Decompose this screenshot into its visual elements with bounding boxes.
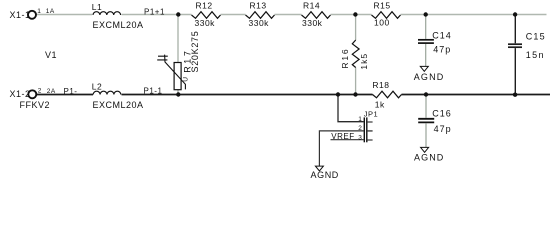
- svg-text:EXCML20A: EXCML20A: [93, 20, 144, 30]
- svg-text:47p: 47p: [433, 45, 451, 55]
- resistor R15: [372, 12, 401, 19]
- resistor R13: [246, 12, 275, 19]
- wire: varistor column vertical: [177, 15, 179, 95]
- capacitor C16: [418, 95, 434, 147]
- svg-text:2A: 2A: [47, 88, 56, 95]
- resistor R14: [302, 12, 331, 19]
- varistor R17 symbol mark: [157, 56, 168, 60]
- jumper JP1 body: [364, 117, 372, 142]
- svg-text:P1-: P1-: [64, 87, 78, 96]
- svg-text:R18: R18: [372, 80, 389, 90]
- svg-text:1A: 1A: [46, 8, 55, 15]
- svg-text:AGND: AGND: [414, 153, 444, 163]
- junction dots top rail: [176, 12, 517, 16]
- svg-text:R16: R16: [340, 48, 350, 69]
- svg-text:S20K275: S20K275: [190, 31, 200, 73]
- svg-text:15n: 15n: [526, 50, 545, 60]
- svg-text:AGND: AGND: [414, 72, 445, 82]
- svg-text:C15: C15: [526, 32, 546, 42]
- ground AGND (C16): [421, 147, 429, 152]
- resistor R12: [192, 12, 221, 19]
- svg-text:1: 1: [358, 116, 362, 123]
- svg-text:R12: R12: [196, 0, 213, 10]
- svg-text:FFKV2: FFKV2: [20, 100, 51, 110]
- svg-text:330k: 330k: [195, 18, 216, 28]
- wire: JP1 pin1 net from bottom rail: [338, 95, 364, 122]
- wire: R16 column vertical: [355, 15, 357, 95]
- svg-text:U: U: [182, 77, 189, 82]
- svg-text:330k: 330k: [302, 18, 323, 28]
- svg-text:1: 1: [37, 8, 41, 15]
- connector X1-2 pin circle: [28, 90, 36, 98]
- svg-text:P1-1: P1-1: [144, 87, 163, 96]
- svg-text:2: 2: [38, 88, 42, 95]
- svg-text:1k5: 1k5: [359, 53, 369, 70]
- inductor L2: [93, 91, 121, 94]
- resistor R18: [373, 91, 402, 98]
- svg-text:L2: L2: [92, 82, 102, 92]
- wire: JP1 pin2 net to AGND: [319, 131, 363, 166]
- resistor R16 (vertical): [352, 40, 359, 68]
- svg-text:47p: 47p: [434, 124, 452, 134]
- svg-text:1k: 1k: [375, 100, 385, 110]
- ground AGND (C14): [420, 66, 428, 71]
- svg-text:3: 3: [358, 134, 362, 141]
- svg-text:V1: V1: [45, 50, 57, 60]
- wire: top rail net segments (grey-green): [37, 14, 547, 16]
- capacitor C15: [508, 15, 522, 95]
- inductor L1: [93, 12, 121, 15]
- junction dots bottom rail: [176, 92, 517, 97]
- svg-text:X1-2: X1-2: [10, 89, 31, 99]
- svg-text:R15: R15: [374, 0, 391, 10]
- svg-text:AGND: AGND: [311, 170, 339, 180]
- wire: VREF label line to JP1 pin3: [331, 139, 364, 141]
- svg-text:100: 100: [374, 17, 390, 27]
- svg-text:JP1: JP1: [364, 109, 378, 118]
- svg-text:C16: C16: [432, 109, 452, 119]
- svg-text:EXCML20A: EXCML20A: [93, 100, 144, 110]
- varistor R17 body: [165, 55, 186, 90]
- svg-text:R13: R13: [250, 0, 267, 10]
- svg-text:X1-1: X1-1: [10, 10, 31, 20]
- svg-text:L1: L1: [92, 2, 102, 12]
- capacitor C14: [418, 15, 434, 66]
- svg-text:330k: 330k: [249, 18, 270, 28]
- svg-text:C14: C14: [432, 31, 452, 41]
- svg-text:2: 2: [358, 125, 362, 132]
- svg-text:R14: R14: [303, 0, 320, 10]
- wire: bottom rail (black): [37, 94, 551, 96]
- connector X1-1 pin circle: [28, 11, 36, 19]
- svg-text:VREF: VREF: [331, 132, 354, 141]
- svg-text:P1+1: P1+1: [144, 7, 165, 16]
- ground AGND (JP1 pin2): [315, 166, 323, 171]
